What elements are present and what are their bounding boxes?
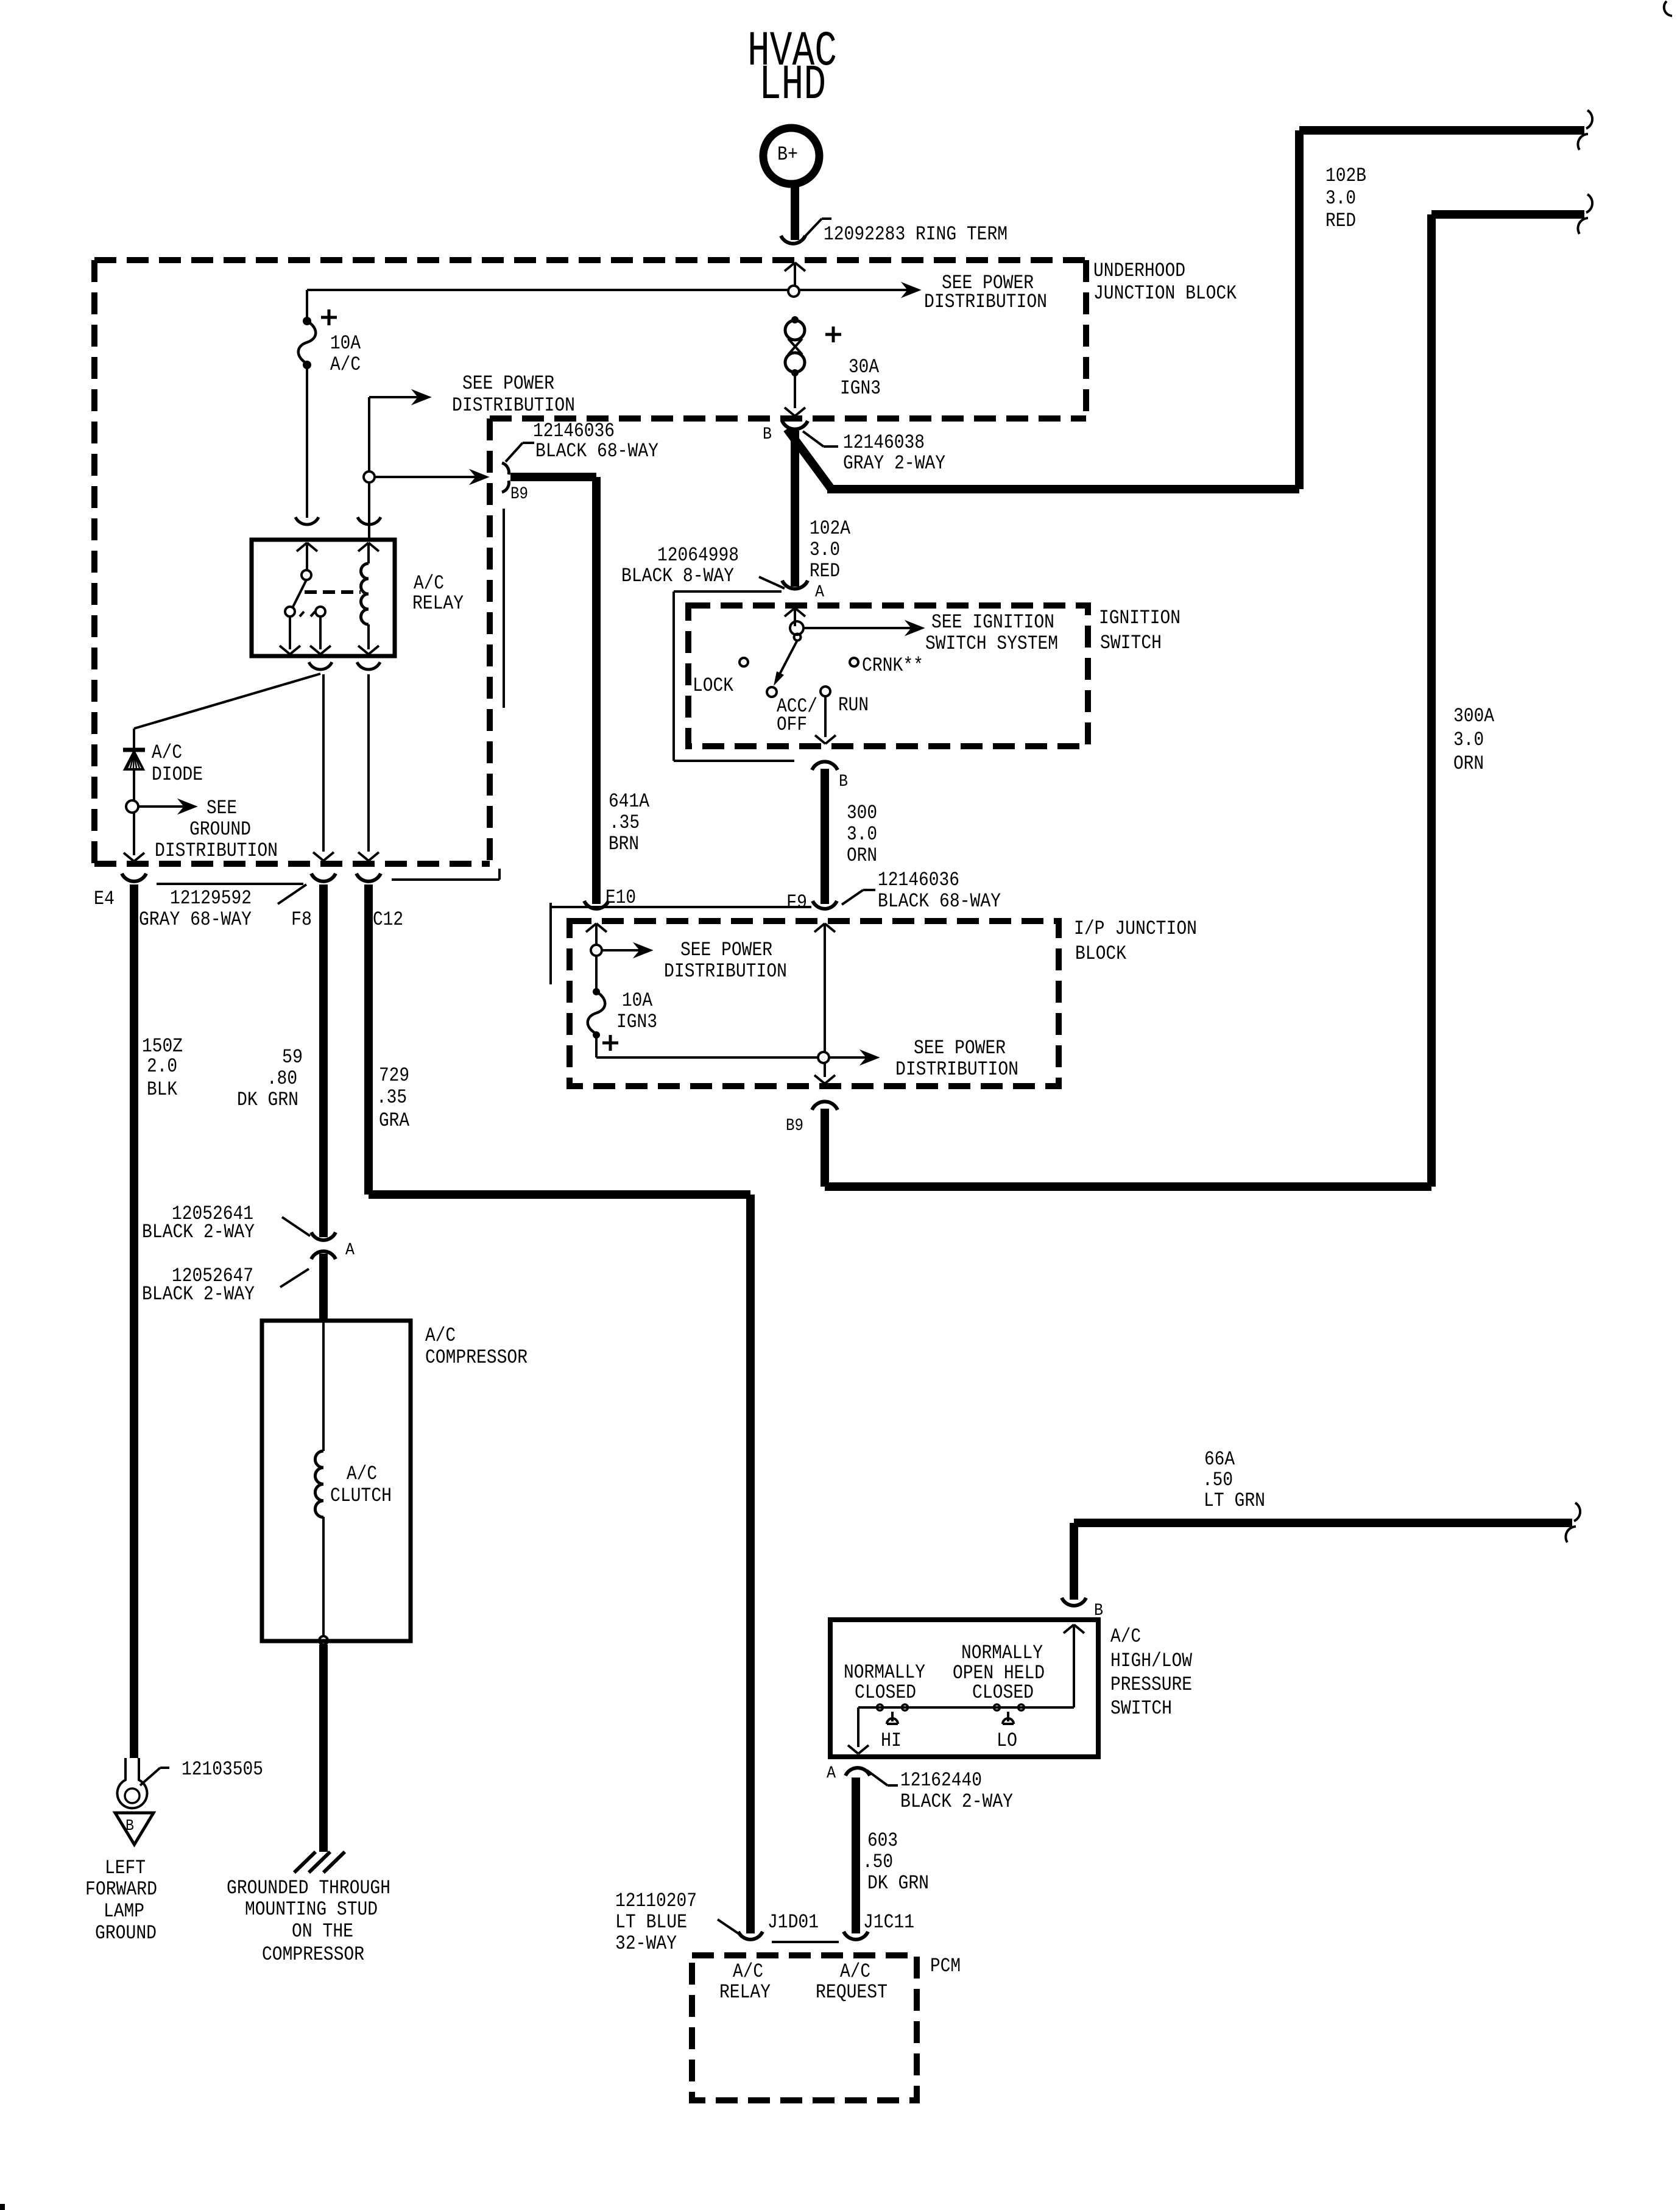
svg-text:GRAY 68-WAY: GRAY 68-WAY xyxy=(139,908,252,931)
svg-text:B: B xyxy=(125,1816,134,1835)
svg-text:PCM: PCM xyxy=(930,1955,961,1977)
svg-text:DIODE: DIODE xyxy=(152,763,203,786)
svg-text:DK GRN: DK GRN xyxy=(867,1872,929,1894)
svg-text:BLACK 2-WAY: BLACK 2-WAY xyxy=(142,1283,255,1305)
svg-text:B: B xyxy=(763,425,772,444)
svg-text:CLUTCH: CLUTCH xyxy=(330,1485,392,1507)
svg-text:E10: E10 xyxy=(605,886,636,909)
svg-text:.50: .50 xyxy=(1202,1469,1233,1491)
svg-text:CRNK**: CRNK** xyxy=(862,654,923,677)
svg-text:DISTRIBUTION: DISTRIBUTION xyxy=(155,839,278,862)
svg-text:DISTRIBUTION: DISTRIBUTION xyxy=(664,960,787,983)
svg-text:J1C11: J1C11 xyxy=(863,1911,914,1933)
svg-text:A/C: A/C xyxy=(414,572,444,595)
svg-text:F9: F9 xyxy=(786,891,807,914)
svg-text:10A: 10A xyxy=(330,332,361,355)
svg-text:A: A xyxy=(815,583,824,602)
svg-text:A/C: A/C xyxy=(840,1960,870,1983)
svg-text:12146036: 12146036 xyxy=(878,869,959,891)
svg-text:32-WAY: 32-WAY xyxy=(615,1932,677,1955)
svg-text:603: 603 xyxy=(867,1829,898,1852)
svg-text:BLACK 2-WAY: BLACK 2-WAY xyxy=(142,1221,255,1243)
svg-text:A/C: A/C xyxy=(347,1463,377,1485)
svg-text:IGNITION: IGNITION xyxy=(1099,607,1181,629)
svg-text:LOCK: LOCK xyxy=(693,674,734,697)
svg-text:LAMP: LAMP xyxy=(104,1900,144,1922)
svg-text:12162440: 12162440 xyxy=(900,1769,982,1792)
svg-text:B+: B+ xyxy=(777,143,798,166)
svg-text:RED: RED xyxy=(810,560,840,582)
svg-text:300A: 300A xyxy=(1453,705,1495,727)
svg-text:RELAY: RELAY xyxy=(412,592,464,615)
svg-text:LT BLUE: LT BLUE xyxy=(615,1911,687,1933)
svg-text:641A: 641A xyxy=(609,790,650,813)
svg-text:IGN3: IGN3 xyxy=(616,1011,657,1033)
svg-text:HIGH/LOW: HIGH/LOW xyxy=(1110,1650,1193,1672)
svg-text:A/C: A/C xyxy=(330,353,361,376)
svg-text:SWITCH SYSTEM: SWITCH SYSTEM xyxy=(925,632,1058,655)
svg-text:HI: HI xyxy=(881,1729,902,1752)
svg-text:729: 729 xyxy=(379,1064,409,1087)
svg-text:B9: B9 xyxy=(510,485,528,504)
svg-text:3.0: 3.0 xyxy=(810,538,840,561)
svg-text:102A: 102A xyxy=(810,517,851,540)
svg-text:66A: 66A xyxy=(1204,1448,1235,1470)
svg-text:F8: F8 xyxy=(291,908,312,931)
svg-text:DISTRIBUTION: DISTRIBUTION xyxy=(924,291,1047,313)
svg-text:SEE POWER: SEE POWER xyxy=(914,1037,1006,1059)
svg-text:GRAY 2-WAY: GRAY 2-WAY xyxy=(843,452,945,475)
svg-text:GROUND: GROUND xyxy=(189,818,251,841)
svg-text:E4: E4 xyxy=(94,888,115,910)
svg-text:A/C: A/C xyxy=(152,741,182,764)
svg-text:COMPRESSOR: COMPRESSOR xyxy=(262,1943,364,1966)
svg-text:GRA: GRA xyxy=(379,1109,410,1132)
svg-text:UNDERHOOD: UNDERHOOD xyxy=(1093,259,1185,282)
svg-text:.80: .80 xyxy=(267,1067,297,1090)
svg-text:.50: .50 xyxy=(863,1851,893,1873)
svg-text:SEE POWER: SEE POWER xyxy=(680,939,772,961)
svg-text:LT GRN: LT GRN xyxy=(1204,1489,1265,1512)
svg-text:.35: .35 xyxy=(609,811,640,834)
svg-text:J1D01: J1D01 xyxy=(768,1911,819,1933)
svg-text:SEE IGNITION: SEE IGNITION xyxy=(931,611,1054,634)
svg-text:A: A xyxy=(345,1241,355,1260)
svg-text:MOUNTING STUD: MOUNTING STUD xyxy=(245,1898,378,1921)
svg-text:GROUNDED THROUGH: GROUNDED THROUGH xyxy=(227,1877,390,1899)
svg-text:A/C: A/C xyxy=(425,1324,456,1347)
svg-text:LEFT: LEFT xyxy=(105,1857,146,1879)
svg-text:12092283 RING TERM: 12092283 RING TERM xyxy=(824,223,1008,245)
svg-text:IGN3: IGN3 xyxy=(840,377,881,400)
svg-text:DK GRN: DK GRN xyxy=(237,1089,298,1111)
svg-text:B9: B9 xyxy=(786,1117,803,1135)
svg-text:12146036: 12146036 xyxy=(533,420,615,442)
svg-text:PRESSURE: PRESSURE xyxy=(1110,1673,1192,1696)
svg-text:3.0: 3.0 xyxy=(1453,729,1484,751)
svg-text:RED: RED xyxy=(1325,210,1356,232)
svg-text:REQUEST: REQUEST xyxy=(816,1981,888,2003)
svg-text:ORN: ORN xyxy=(1453,752,1484,775)
svg-text:.35: .35 xyxy=(376,1086,407,1109)
svg-text:12103505: 12103505 xyxy=(182,1758,263,1781)
svg-text:GROUND: GROUND xyxy=(95,1922,157,1944)
svg-text:12064998: 12064998 xyxy=(657,544,739,567)
svg-text:BLACK 68-WAY: BLACK 68-WAY xyxy=(535,440,658,462)
svg-text:150Z: 150Z xyxy=(142,1035,183,1057)
svg-text:CLOSED: CLOSED xyxy=(972,1681,1034,1704)
svg-text:BLOCK: BLOCK xyxy=(1075,942,1127,965)
svg-text:RELAY: RELAY xyxy=(719,1981,771,2003)
svg-text:300: 300 xyxy=(847,802,877,824)
svg-text:LHD: LHD xyxy=(759,58,826,113)
svg-text:ON THE: ON THE xyxy=(292,1920,353,1943)
svg-text:SEE: SEE xyxy=(206,797,237,819)
svg-text:OFF: OFF xyxy=(777,713,807,736)
svg-text:BLACK 2-WAY: BLACK 2-WAY xyxy=(900,1790,1013,1813)
svg-text:DISTRIBUTION: DISTRIBUTION xyxy=(452,394,575,417)
svg-text:SEE POWER: SEE POWER xyxy=(462,372,554,395)
svg-text:12146038: 12146038 xyxy=(843,431,925,454)
svg-text:JUNCTION BLOCK: JUNCTION BLOCK xyxy=(1093,282,1237,305)
svg-text:LO: LO xyxy=(997,1729,1017,1752)
svg-text:BRN: BRN xyxy=(609,833,639,855)
svg-text:C12: C12 xyxy=(373,908,403,931)
svg-text:59: 59 xyxy=(282,1046,303,1068)
svg-text:3.0: 3.0 xyxy=(847,823,877,846)
svg-text:FORWARD: FORWARD xyxy=(85,1878,157,1901)
svg-text:10A: 10A xyxy=(622,989,653,1012)
svg-text:RUN: RUN xyxy=(838,694,869,716)
svg-text:SWITCH: SWITCH xyxy=(1100,632,1162,654)
svg-text:NORMALLY: NORMALLY xyxy=(844,1661,925,1684)
svg-text:CLOSED: CLOSED xyxy=(855,1681,916,1704)
svg-text:2.0: 2.0 xyxy=(147,1055,177,1078)
svg-text:A/C: A/C xyxy=(1110,1625,1141,1648)
svg-text:A/C: A/C xyxy=(733,1960,763,1983)
svg-text:12129592: 12129592 xyxy=(170,887,252,909)
svg-text:A: A xyxy=(827,1764,836,1783)
svg-text:30A: 30A xyxy=(849,356,880,378)
svg-text:B: B xyxy=(839,772,848,791)
svg-text:ORN: ORN xyxy=(847,844,877,867)
svg-text:BLK: BLK xyxy=(147,1078,178,1101)
svg-text:102B: 102B xyxy=(1325,164,1366,187)
svg-text:DISTRIBUTION: DISTRIBUTION xyxy=(895,1058,1018,1081)
svg-text:COMPRESSOR: COMPRESSOR xyxy=(425,1346,528,1369)
svg-text:SWITCH: SWITCH xyxy=(1110,1697,1172,1720)
svg-text:NORMALLY: NORMALLY xyxy=(961,1642,1043,1664)
svg-text:I/P JUNCTION: I/P JUNCTION xyxy=(1074,917,1197,940)
svg-text:3.0: 3.0 xyxy=(1325,187,1356,210)
svg-text:BLACK 68-WAY: BLACK 68-WAY xyxy=(878,890,1001,913)
svg-text:12110207: 12110207 xyxy=(615,1890,697,1912)
svg-text:BLACK 8-WAY: BLACK 8-WAY xyxy=(621,565,734,587)
